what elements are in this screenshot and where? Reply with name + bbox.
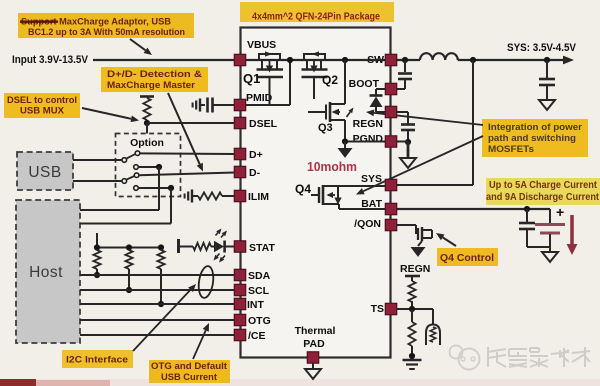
svg-text:USB: USB — [28, 164, 61, 181]
arrow from Q4 Control box to Q4 gate FET — [443, 237, 456, 246]
svg-text:SDA: SDA — [248, 270, 271, 282]
capacitor REGN bypass — [397, 111, 409, 113]
svg-text:VBUS: VBUS — [247, 39, 276, 51]
wire SYS rail — [458, 59, 563, 61]
supply bar for STAT LED — [177, 239, 180, 253]
pin TS — [385, 303, 396, 314]
ground Q5 (filled) — [411, 247, 426, 257]
node host D- path — [168, 185, 174, 191]
dark red streak bottom-left corner — [0, 379, 36, 386]
wire alt throw to node — [138, 187, 171, 189]
svg-text:I2C Interface: I2C Interface — [66, 355, 128, 365]
callout box: OTG and Default USB Current — [149, 360, 230, 383]
svg-text:Q3: Q3 — [318, 122, 333, 134]
svg-text:/CE: /CE — [248, 330, 266, 342]
node REGN cap / PGND — [405, 139, 411, 145]
wire TS pin to divider — [397, 308, 434, 310]
wire OTG — [80, 319, 235, 321]
svg-text:ILIM: ILIM — [248, 191, 269, 203]
ground SYS cap — [539, 100, 555, 110]
switch S1 common contact — [122, 158, 127, 163]
svg-text:STAT: STAT — [249, 242, 275, 254]
node PGND — [342, 138, 348, 144]
wire to ground — [407, 142, 410, 158]
wire PGND pin external — [397, 141, 409, 143]
callout box: I2C Interface — [62, 350, 133, 368]
capacitor at PMID pin — [206, 98, 209, 113]
IC body outline U1 QFN-24 charger — [241, 28, 391, 358]
resistor TS lower divider — [408, 322, 415, 346]
wire SCL — [80, 289, 235, 291]
wire PMID internal — [246, 104, 291, 106]
wire /CE — [80, 334, 235, 336]
battery BT1 — [549, 209, 551, 223]
callout box: Integration of power path and switching MOSFETs — [482, 119, 588, 157]
svg-text:PGND: PGND — [353, 133, 384, 145]
pin Thermal PAD — [307, 352, 318, 363]
LED light ray arrow 1 — [216, 233, 218, 236]
svg-text:MaxCharge Master: MaxCharge Master — [107, 80, 195, 91]
LED D1 on STAT — [214, 241, 224, 253]
callout box: Q4 Control — [437, 248, 498, 266]
svg-text:4x4mm^2 QFN-24Pin Package: 4x4mm^2 QFN-24Pin Package — [252, 12, 380, 23]
Host box — [16, 200, 80, 343]
svg-text:10mohm: 10mohm — [307, 159, 357, 174]
node DSEL — [144, 120, 150, 126]
pin STAT — [234, 241, 245, 252]
wire STAT — [179, 246, 194, 248]
pin D- — [234, 166, 245, 177]
transistor Q3 (LS switch FET) — [344, 60, 346, 104]
switch S1 lever — [126, 154, 135, 159]
svg-text:Q2: Q2 — [322, 73, 338, 87]
wire PGND to ground — [344, 142, 346, 149]
node TS ground — [409, 353, 415, 359]
ground thermal pad — [305, 369, 321, 379]
node SCL — [126, 287, 132, 293]
resistor R1 SDA pull-up — [93, 250, 100, 269]
wire SDA — [80, 274, 235, 276]
pin PGND — [385, 136, 396, 147]
svg-text:MOSFETs: MOSFETs — [488, 144, 534, 155]
wire node down — [170, 188, 172, 224]
switch S1 throw contact (D+) — [135, 151, 140, 156]
pin SW — [385, 54, 396, 65]
switch S2 common contact — [122, 179, 127, 184]
pull-up bar for DSEL resistor — [140, 95, 154, 98]
arrow from I2C box to bus ellipse — [133, 290, 191, 351]
svg-text:REGN: REGN — [353, 118, 383, 130]
callout box: Support MaxCharge Adaptor — [18, 13, 194, 38]
node host D+ path — [156, 164, 162, 170]
svg-text:D+: D+ — [249, 149, 263, 161]
watermark logo (gray chat face) — [450, 346, 480, 370]
wire Q4 drain to SYS pin — [323, 185, 386, 187]
wire pull-up bus — [97, 247, 161, 249]
svg-text:path and switching: path and switching — [488, 133, 576, 144]
arrow from Support box to input wire — [130, 39, 146, 50]
wire resistor to DSEL node — [146, 120, 148, 123]
pin BOOT — [385, 83, 396, 94]
callout box: DSEL to control USB MUX — [4, 93, 80, 118]
wire SYS pin to rail — [397, 184, 474, 186]
capacitor BAT — [526, 209, 528, 222]
svg-text:BC1.2 up to 3A With 50mA resol: BC1.2 up to 3A With 50mA resolution — [28, 27, 185, 38]
svg-text:Input 3.9V-13.5V: Input 3.9V-13.5V — [12, 54, 89, 66]
Option dashed box — [116, 134, 181, 197]
wire DSEL to pin — [147, 122, 235, 124]
wire PMID up to node — [289, 60, 291, 105]
resistor TS pull-up — [408, 281, 415, 302]
node bus R2 — [126, 244, 132, 250]
transistor Q1 (reverse-block FET) — [259, 54, 280, 60]
wire internal top rail VBUS-Q1-Q2-SW — [246, 59, 386, 61]
svg-text:Option: Option — [130, 137, 164, 149]
svg-text:REGN: REGN — [400, 263, 430, 275]
svg-text:PAD: PAD — [303, 338, 325, 350]
svg-text:SYS: SYS — [361, 173, 382, 185]
pin DSEL — [234, 117, 245, 128]
pin INT — [234, 298, 245, 309]
node bus R1 — [94, 244, 100, 250]
switch S2 throw contact (D-) — [134, 173, 139, 178]
wire PGND internal — [345, 141, 386, 143]
wire INT — [80, 303, 235, 305]
bottom photo edge tint — [0, 379, 600, 386]
wire SW to inductor — [397, 59, 421, 61]
resistor DSEL pull-up — [143, 98, 150, 120]
svg-text:USB Current: USB Current — [161, 372, 217, 382]
svg-text:DSEL: DSEL — [249, 118, 278, 130]
wire Q4 source to BAT pin — [339, 208, 386, 210]
arrow from Integration box to Q3 drain area — [374, 113, 483, 125]
node SW/BOOT cap — [402, 57, 408, 63]
ground PGND (filled) — [338, 148, 353, 158]
resistor ILIM — [198, 192, 222, 199]
svg-text:USB MUX: USB MUX — [20, 106, 65, 116]
transistor Q2 (HS switch FET) — [304, 54, 325, 60]
svg-text:INT: INT — [247, 299, 265, 311]
wire VBUS input — [93, 59, 235, 61]
switch S1 alt throw contact — [134, 165, 139, 170]
switch S2 alt throw contact — [134, 186, 139, 191]
node TS — [409, 306, 415, 312]
pin VBUS — [234, 54, 245, 65]
wire USB D- to switch S2 — [73, 180, 122, 182]
resistor R2 SCL pull-up — [125, 250, 132, 269]
node bus R3 — [158, 244, 164, 250]
strikethrough over Support — [20, 21, 58, 23]
discharge current red arrow — [570, 215, 574, 246]
ground (signal) at ILIM — [191, 190, 193, 203]
wire alt throw to node — [138, 166, 159, 168]
resistor R3 INT pull-up — [157, 250, 164, 269]
svg-text:D-: D- — [249, 167, 261, 179]
wire SYS vertical — [472, 60, 474, 185]
pin BAT — [385, 203, 396, 214]
svg-text:TS: TS — [371, 303, 384, 315]
callout box: Up to 5A Charge / 9A Discharge — [486, 178, 600, 205]
svg-text:Up to 5A Charge Current: Up to 5A Charge Current — [489, 180, 598, 191]
svg-text:/QON: /QON — [354, 218, 381, 230]
node SDA — [94, 272, 100, 278]
node PMID/Q1-Q2 — [287, 57, 293, 63]
svg-text:OTG: OTG — [248, 315, 271, 327]
arrow from Detection box to D- wire — [168, 93, 200, 164]
svg-text:BOOT: BOOT — [349, 78, 380, 90]
USB box — [17, 152, 73, 190]
svg-text:Q1: Q1 — [243, 71, 260, 86]
arrow from OTG box to OTG wire — [193, 330, 206, 359]
pull-up stub for I2C resistors — [96, 233, 98, 248]
switch S2 lever — [126, 176, 134, 180]
watermark text strokes imitating 传感器技术 — [488, 347, 590, 367]
callout box: D+/D- Detection & MaxCharge Master — [101, 67, 208, 92]
wire D- to pin — [139, 173, 235, 176]
resistor STAT LED — [193, 243, 211, 250]
wire to Host (USB D+ alt) — [80, 209, 159, 211]
wire to Host (USB D- alt) — [80, 223, 171, 225]
svg-text:Q4 Control: Q4 Control — [440, 253, 494, 264]
arrow from DSEL box to DSEL node — [82, 108, 131, 119]
svg-text:+: + — [556, 204, 564, 220]
pin /CE — [234, 329, 245, 340]
node INT — [158, 301, 164, 307]
pin SCL — [234, 284, 245, 295]
wire BAT rail — [397, 208, 551, 210]
svg-text:SCL: SCL — [248, 285, 270, 297]
ground battery — [542, 252, 558, 262]
LED light ray arrow 4 — [223, 256, 225, 259]
svg-text:SYS: 3.5V-4.5V: SYS: 3.5V-4.5V — [507, 42, 577, 54]
inductor L1 — [420, 53, 458, 60]
wire to PMID pin — [213, 104, 235, 106]
pin ILIM — [234, 190, 245, 201]
ground TS (earth bars) — [403, 359, 422, 362]
pin PMID — [234, 99, 245, 110]
wire LED to STAT pin — [225, 246, 235, 248]
node SYS cap — [544, 57, 550, 63]
wire DSEL into Option box — [146, 123, 148, 134]
wire USB D+ to switch S1 — [73, 159, 122, 161]
node SW internal — [342, 57, 348, 63]
capacitor BOOT C_boot — [404, 60, 406, 72]
pin REGN — [385, 106, 396, 117]
pin D+ — [234, 148, 245, 159]
transistor Q4 (BATFET) — [311, 194, 319, 196]
svg-text:D+/D- Detection &: D+/D- Detection & — [107, 69, 202, 80]
diode D2 REGN to BOOT — [376, 88, 386, 90]
svg-text:Q4: Q4 — [295, 182, 311, 196]
svg-text:DSEL to control: DSEL to control — [7, 95, 77, 105]
svg-text:Host: Host — [29, 264, 63, 281]
wire ILIM to pin — [222, 195, 235, 197]
wire thermal pad to ground — [312, 363, 314, 369]
node SYS/inductor — [470, 57, 476, 63]
LED light ray arrow 3 — [217, 254, 219, 257]
arrow from Integration box to Q4 area — [363, 136, 483, 191]
wire battery bottom — [527, 246, 550, 248]
node BAT cap — [524, 206, 530, 212]
ground (signal) at PMID cap — [199, 99, 201, 112]
pin /QON — [385, 219, 396, 230]
transistor Q5 QON control FET — [397, 224, 417, 226]
svg-text:and 9A Discharge Current: and 9A Discharge Current — [486, 192, 600, 203]
ground REGN cap — [400, 158, 416, 168]
wire D+ to pin — [140, 152, 235, 155]
svg-text:Integration of power: Integration of power — [488, 122, 582, 133]
thermistor RT1 — [432, 309, 434, 324]
pin OTG — [234, 314, 245, 325]
svg-text:OTG and Default: OTG and Default — [151, 361, 227, 371]
svg-text:Thermal: Thermal — [295, 325, 336, 337]
pin SDA — [234, 269, 245, 280]
pin SYS — [385, 179, 396, 190]
LED light ray arrow 2 — [221, 235, 223, 238]
capacitor SYS output — [546, 60, 548, 78]
wire node down — [158, 167, 160, 210]
ellipse highlighting I2C bus — [197, 265, 215, 299]
callout box: 4x4mm^2 QFN-24Pin Package — [240, 2, 394, 22]
